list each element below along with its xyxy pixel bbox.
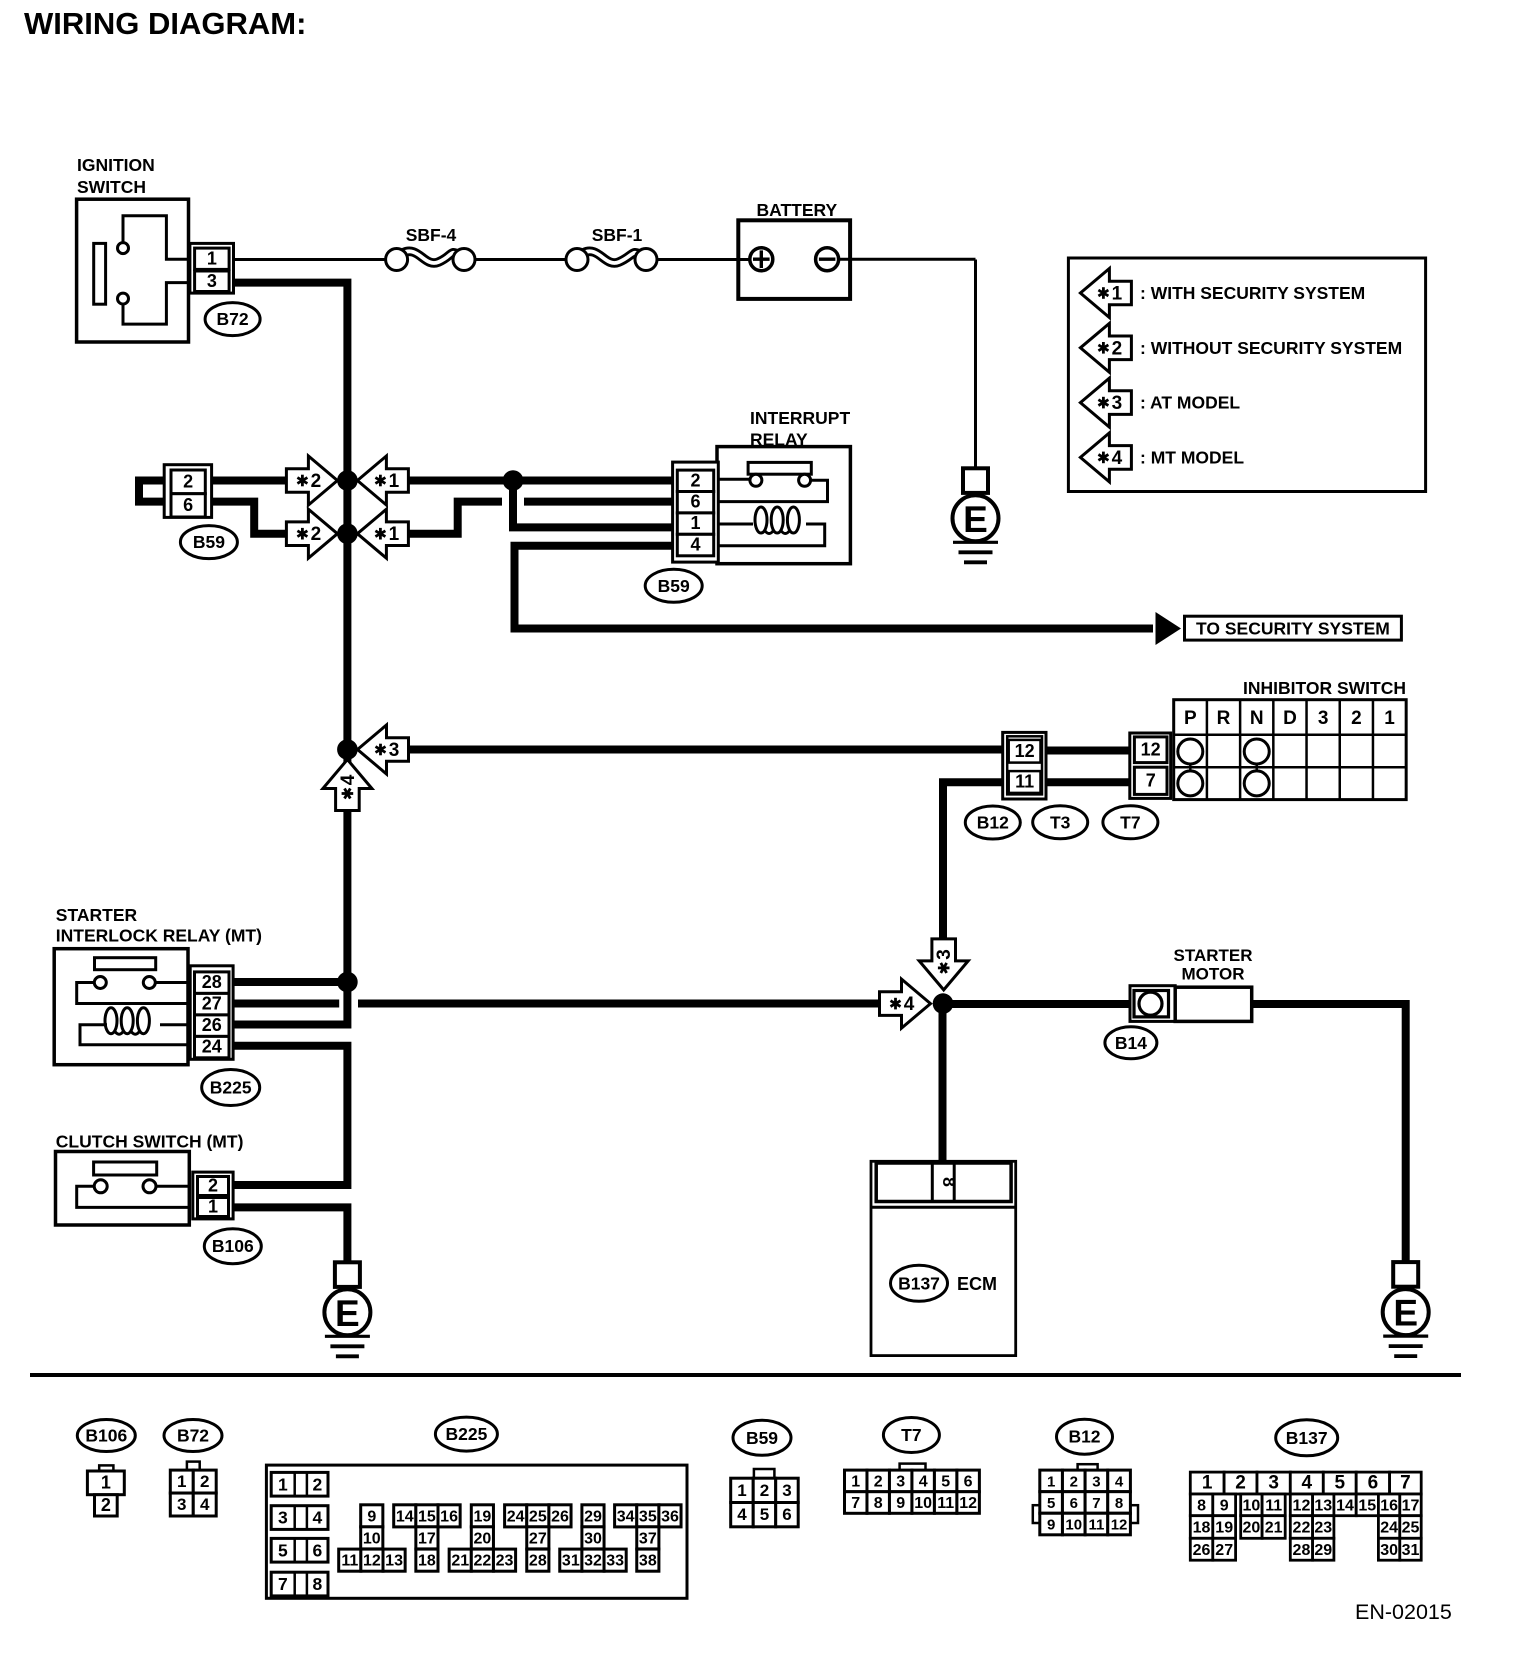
svg-text:STARTER: STARTER: [1173, 946, 1252, 965]
svg-text:STARTER: STARTER: [56, 905, 138, 925]
svg-text:3: 3: [1092, 1473, 1100, 1490]
svg-text:8: 8: [313, 1574, 323, 1594]
svg-text:1: 1: [208, 1197, 218, 1217]
svg-text:18: 18: [418, 1553, 436, 1570]
svg-text:5: 5: [760, 1505, 769, 1524]
svg-text:INHIBITOR SWITCH: INHIBITOR SWITCH: [1243, 678, 1406, 698]
svg-text:5: 5: [941, 1473, 950, 1490]
svg-text:14: 14: [1336, 1497, 1354, 1514]
svg-text:B59: B59: [193, 532, 225, 552]
svg-text:1: 1: [737, 1481, 746, 1500]
svg-text:TO SECURITY SYSTEM: TO SECURITY SYSTEM: [1196, 619, 1390, 639]
svg-text:7: 7: [1092, 1495, 1100, 1512]
svg-text:B59: B59: [746, 1428, 778, 1448]
svg-text:12: 12: [363, 1553, 381, 1570]
svg-text:22: 22: [1293, 1520, 1311, 1537]
svg-text:12: 12: [1141, 739, 1161, 759]
svg-text:4: 4: [919, 1473, 928, 1490]
svg-text:3: 3: [177, 1495, 186, 1514]
svg-text:10: 10: [1065, 1517, 1082, 1534]
svg-text:4: 4: [690, 535, 700, 555]
svg-text:B106: B106: [212, 1236, 254, 1256]
svg-text:3: 3: [934, 949, 955, 960]
svg-text:24: 24: [202, 1037, 222, 1057]
svg-text:1: 1: [278, 1474, 288, 1494]
svg-text:3: 3: [896, 1473, 905, 1490]
svg-text:2: 2: [760, 1481, 769, 1500]
svg-text:6: 6: [1070, 1495, 1078, 1512]
svg-text:15: 15: [1358, 1497, 1376, 1514]
svg-text:28: 28: [202, 972, 222, 992]
svg-text:2: 2: [690, 470, 700, 490]
svg-text:38: 38: [639, 1553, 657, 1570]
svg-text:5: 5: [1334, 1473, 1345, 1494]
svg-text:1: 1: [177, 1472, 186, 1491]
svg-text:INTERRUPT: INTERRUPT: [750, 408, 850, 428]
svg-text:: AT MODEL: : AT MODEL: [1140, 393, 1240, 413]
svg-text:12: 12: [959, 1495, 977, 1512]
svg-text:ECM: ECM: [957, 1274, 997, 1294]
svg-text:1: 1: [389, 471, 400, 492]
svg-text:13: 13: [1314, 1497, 1332, 1514]
svg-text:11: 11: [937, 1495, 954, 1512]
svg-text:6: 6: [1368, 1473, 1379, 1494]
svg-text:4: 4: [1115, 1473, 1124, 1490]
svg-text:B106: B106: [85, 1426, 127, 1446]
svg-text:10: 10: [1243, 1497, 1261, 1514]
svg-text:3: 3: [1112, 393, 1123, 414]
svg-text:20: 20: [1243, 1520, 1261, 1537]
svg-text:5: 5: [1047, 1495, 1055, 1512]
svg-text:15: 15: [418, 1508, 436, 1525]
svg-text:11: 11: [1265, 1497, 1282, 1514]
svg-text:27: 27: [529, 1530, 547, 1547]
svg-text:24: 24: [1380, 1520, 1398, 1537]
svg-text:: WITH SECURITY SYSTEM: : WITH SECURITY SYSTEM: [1140, 283, 1365, 303]
svg-text:17: 17: [418, 1530, 436, 1547]
svg-text:R: R: [1217, 708, 1231, 729]
svg-text:1: 1: [1112, 284, 1123, 305]
svg-text:3: 3: [207, 271, 217, 291]
svg-text:28: 28: [529, 1553, 547, 1570]
svg-text:9: 9: [367, 1508, 376, 1525]
svg-text:11: 11: [1088, 1517, 1104, 1534]
svg-text:2: 2: [874, 1473, 883, 1490]
svg-text:4: 4: [313, 1508, 323, 1528]
svg-text:37: 37: [639, 1530, 657, 1547]
svg-text:B14: B14: [1115, 1033, 1147, 1053]
svg-text:3: 3: [782, 1481, 791, 1500]
svg-text:B72: B72: [177, 1426, 209, 1446]
svg-text:2: 2: [1235, 1473, 1246, 1494]
svg-text:26: 26: [551, 1508, 569, 1525]
svg-text:3: 3: [1318, 708, 1329, 729]
svg-text:26: 26: [1193, 1542, 1211, 1559]
svg-text:: MT MODEL: : MT MODEL: [1140, 447, 1244, 467]
svg-text:2: 2: [311, 524, 322, 545]
svg-text:8: 8: [1197, 1497, 1206, 1514]
svg-text:2: 2: [200, 1472, 209, 1491]
svg-text:2: 2: [183, 471, 193, 491]
svg-text:33: 33: [606, 1553, 624, 1570]
svg-text:1: 1: [1384, 708, 1395, 729]
svg-text:1: 1: [851, 1473, 860, 1490]
svg-text:4: 4: [737, 1505, 747, 1524]
svg-text:18: 18: [1193, 1520, 1211, 1537]
svg-text:7: 7: [1400, 1473, 1411, 1494]
svg-text:9: 9: [1220, 1497, 1229, 1514]
svg-text:8: 8: [874, 1495, 883, 1512]
svg-text:26: 26: [202, 1015, 222, 1035]
svg-text:29: 29: [584, 1508, 602, 1525]
svg-text:P: P: [1184, 708, 1197, 729]
svg-text:4: 4: [200, 1495, 210, 1514]
svg-text:35: 35: [639, 1508, 657, 1525]
svg-text:SBF-1: SBF-1: [592, 225, 643, 245]
svg-text:8: 8: [1115, 1495, 1123, 1512]
svg-text:30: 30: [584, 1530, 602, 1547]
svg-text:28: 28: [1293, 1542, 1311, 1559]
svg-text:4: 4: [1302, 1473, 1313, 1494]
svg-text:21: 21: [1265, 1520, 1283, 1537]
svg-text:12: 12: [1111, 1517, 1128, 1534]
svg-text:9: 9: [896, 1495, 905, 1512]
svg-text:SWITCH: SWITCH: [77, 177, 146, 197]
svg-text:21: 21: [451, 1553, 469, 1570]
svg-text:25: 25: [1402, 1520, 1420, 1537]
svg-text:2: 2: [101, 1495, 111, 1515]
svg-text:2: 2: [1070, 1473, 1078, 1490]
svg-text:B12: B12: [1068, 1427, 1100, 1447]
svg-text:8: 8: [939, 1177, 959, 1187]
svg-text:EN-02015: EN-02015: [1355, 1600, 1452, 1624]
svg-text:1: 1: [101, 1472, 111, 1492]
svg-text:31: 31: [562, 1553, 580, 1570]
svg-text:: WITHOUT SECURITY SYSTEM: : WITHOUT SECURITY SYSTEM: [1140, 338, 1402, 358]
svg-text:3: 3: [278, 1508, 288, 1528]
svg-text:1: 1: [1047, 1473, 1055, 1490]
svg-text:E: E: [1393, 1293, 1418, 1334]
svg-text:2: 2: [313, 1474, 323, 1494]
svg-text:10: 10: [363, 1530, 381, 1547]
svg-text:30: 30: [1380, 1542, 1398, 1559]
svg-text:22: 22: [473, 1553, 491, 1570]
svg-text:6: 6: [313, 1540, 323, 1560]
svg-text:MOTOR: MOTOR: [1182, 965, 1245, 984]
svg-text:17: 17: [1402, 1497, 1420, 1514]
svg-text:E: E: [335, 1293, 360, 1334]
svg-text:9: 9: [1047, 1517, 1055, 1534]
svg-text:B137: B137: [1286, 1428, 1328, 1448]
svg-text:24: 24: [507, 1508, 525, 1525]
svg-text:1: 1: [1202, 1473, 1213, 1494]
svg-text:25: 25: [529, 1508, 547, 1525]
svg-text:4: 4: [338, 774, 359, 785]
svg-text:4: 4: [1112, 448, 1123, 469]
svg-text:D: D: [1283, 708, 1297, 729]
svg-text:T7: T7: [901, 1425, 921, 1445]
svg-text:7: 7: [278, 1574, 288, 1594]
svg-text:34: 34: [617, 1508, 635, 1525]
svg-text:4: 4: [904, 994, 915, 1015]
svg-text:6: 6: [782, 1505, 791, 1524]
svg-text:E: E: [963, 499, 988, 540]
svg-text:T7: T7: [1120, 812, 1140, 832]
svg-text:B137: B137: [898, 1273, 940, 1293]
svg-text:CLUTCH SWITCH (MT): CLUTCH SWITCH (MT): [56, 1132, 244, 1152]
svg-text:29: 29: [1314, 1542, 1332, 1559]
svg-text:INTERLOCK RELAY (MT): INTERLOCK RELAY (MT): [56, 926, 262, 946]
svg-text:1: 1: [690, 513, 700, 533]
svg-text:11: 11: [1015, 772, 1034, 792]
svg-text:IGNITION: IGNITION: [77, 155, 155, 175]
svg-text:BATTERY: BATTERY: [757, 200, 838, 220]
svg-text:3: 3: [1268, 1473, 1279, 1494]
svg-text:6: 6: [183, 495, 193, 515]
svg-text:11: 11: [341, 1553, 358, 1570]
svg-text:6: 6: [964, 1473, 973, 1490]
svg-text:T3: T3: [1050, 812, 1071, 832]
svg-text:B225: B225: [210, 1078, 252, 1098]
svg-text:31: 31: [1402, 1542, 1420, 1559]
svg-text:B225: B225: [445, 1424, 487, 1444]
svg-text:12: 12: [1293, 1497, 1311, 1514]
svg-text:23: 23: [1314, 1520, 1332, 1537]
svg-text:10: 10: [914, 1495, 932, 1512]
svg-text:27: 27: [1215, 1542, 1233, 1559]
svg-text:WIRING DIAGRAM:: WIRING DIAGRAM:: [24, 6, 306, 41]
svg-text:3: 3: [389, 740, 400, 761]
svg-text:16: 16: [440, 1508, 458, 1525]
svg-text:7: 7: [1146, 770, 1156, 790]
svg-text:12: 12: [1015, 741, 1035, 761]
svg-text:7: 7: [851, 1495, 860, 1512]
svg-text:2: 2: [208, 1176, 218, 1196]
svg-text:5: 5: [278, 1540, 288, 1560]
svg-text:14: 14: [396, 1508, 414, 1525]
svg-text:B12: B12: [977, 813, 1009, 833]
svg-text:16: 16: [1380, 1497, 1398, 1514]
svg-text:2: 2: [1112, 338, 1123, 359]
svg-text:23: 23: [496, 1553, 514, 1570]
svg-text:6: 6: [690, 492, 700, 512]
svg-text:19: 19: [473, 1508, 491, 1525]
svg-text:20: 20: [473, 1530, 491, 1547]
svg-text:13: 13: [385, 1553, 403, 1570]
svg-text:1: 1: [389, 524, 400, 545]
svg-text:B59: B59: [658, 576, 690, 596]
svg-text:27: 27: [202, 994, 222, 1014]
svg-text:B72: B72: [217, 309, 249, 329]
svg-text:36: 36: [661, 1508, 679, 1525]
svg-text:2: 2: [1351, 708, 1362, 729]
svg-text:1: 1: [207, 248, 217, 268]
svg-text:19: 19: [1215, 1520, 1233, 1537]
svg-text:2: 2: [311, 471, 322, 492]
svg-text:SBF-4: SBF-4: [406, 225, 457, 245]
svg-text:N: N: [1250, 708, 1264, 729]
svg-text:32: 32: [584, 1553, 602, 1570]
